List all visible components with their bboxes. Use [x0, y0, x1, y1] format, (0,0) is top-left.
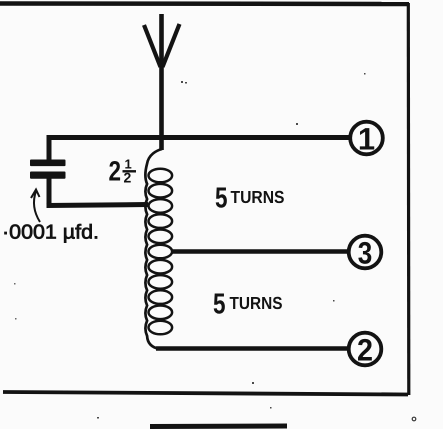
capacitor .0001 mfd	[30, 160, 66, 179]
svg-text:·0001 µfd.: ·0001 µfd.	[2, 222, 99, 244]
antenna	[144, 14, 180, 150]
coil L1 (antenna coupling coil)	[145, 149, 172, 349]
wire: capacitor top lead	[47, 135, 52, 160]
value label 5 TURNS (upper winding)	[215, 183, 285, 215]
wire: coil tap to terminal 3	[171, 249, 349, 254]
svg-text:5: 5	[215, 183, 228, 215]
wire: coil bottom to terminal 2	[156, 346, 349, 351]
svg-text:2: 2	[357, 333, 373, 368]
value label 2 1/2 (turns)	[109, 156, 137, 187]
terminal 2	[349, 333, 382, 368]
wire: capacitor bottom lead	[47, 178, 52, 206]
terminal 3	[349, 236, 382, 271]
svg-text:2: 2	[124, 170, 132, 186]
svg-text:2: 2	[109, 156, 122, 187]
terminal 1	[350, 122, 383, 157]
svg-text:3: 3	[358, 236, 373, 271]
wire: horizontal from capacitor top plate across antenna to terminal 1	[47, 135, 350, 140]
wire: capacitor to coil tap junction	[47, 205, 149, 206]
svg-text:5: 5	[213, 289, 226, 321]
value label 5 TURNS (lower winding)	[213, 289, 283, 321]
svg-text:TURNS: TURNS	[231, 187, 285, 207]
label arrow pointing to capacitor	[31, 190, 40, 223]
svg-text:TURNS: TURNS	[230, 293, 283, 313]
svg-text:1: 1	[358, 122, 375, 157]
